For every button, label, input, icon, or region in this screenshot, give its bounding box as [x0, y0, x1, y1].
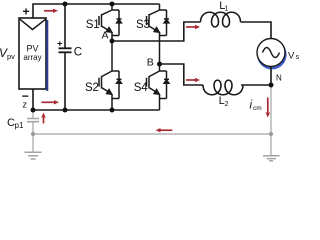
svg-text:S4: S4 — [134, 82, 148, 94]
svg-text:C: C — [74, 47, 82, 59]
svg-text:2: 2 — [225, 101, 229, 108]
svg-text:S3: S3 — [136, 19, 150, 31]
svg-text:array: array — [23, 53, 41, 62]
svg-text:A: A — [102, 30, 109, 42]
svg-text:cm: cm — [253, 105, 262, 112]
svg-text:p1: p1 — [15, 121, 24, 130]
svg-text:V: V — [288, 51, 295, 62]
svg-text:+: + — [57, 39, 63, 50]
svg-text:z: z — [23, 100, 28, 110]
svg-text:B: B — [147, 56, 154, 68]
svg-text:N: N — [276, 74, 282, 83]
svg-text:pv: pv — [7, 52, 15, 61]
svg-text:s: s — [296, 54, 300, 61]
svg-text:PV: PV — [26, 44, 38, 54]
svg-text:S2: S2 — [85, 82, 99, 94]
svg-text:+: + — [23, 4, 30, 18]
svg-text:S1: S1 — [86, 19, 100, 31]
svg-text:1: 1 — [224, 6, 228, 13]
